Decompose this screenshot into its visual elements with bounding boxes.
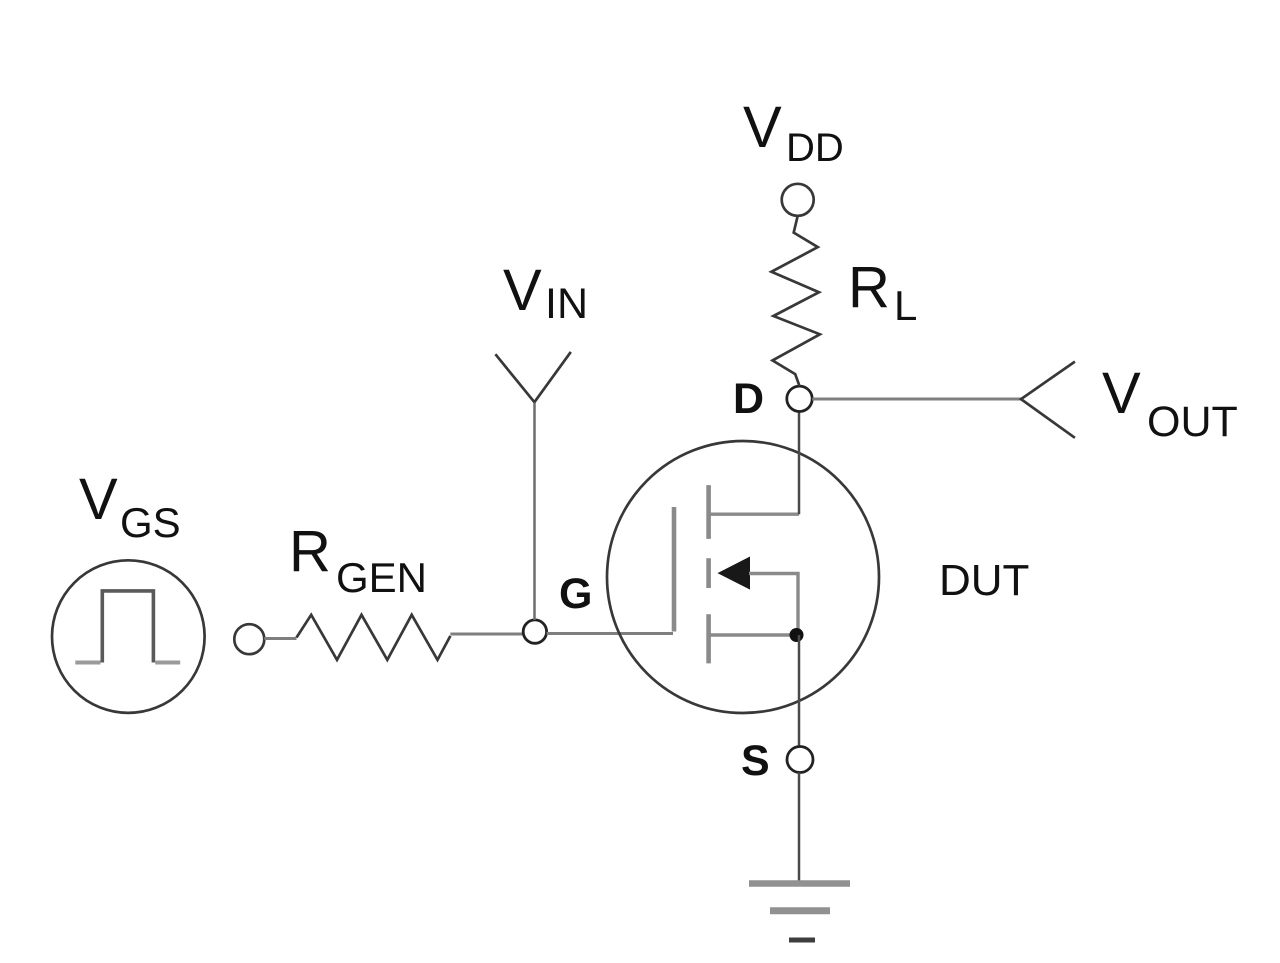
source connection: [709, 633, 798, 636]
svg-text:DUT: DUT: [939, 556, 1029, 605]
terminal VDD: [782, 184, 814, 216]
resistor RGEN: [297, 615, 451, 660]
drain connection: [709, 513, 799, 516]
svg-text:V: V: [1102, 361, 1141, 426]
svg-text:IN: IN: [545, 280, 588, 328]
svg-text:G: G: [559, 570, 592, 618]
svg-text:V: V: [743, 95, 782, 160]
svg-text:R: R: [289, 519, 331, 584]
body diode arrow: [718, 557, 751, 590]
svg-text:OUT: OUT: [1147, 398, 1238, 446]
svg-text:GEN: GEN: [336, 554, 427, 601]
probe VIN: [495, 352, 570, 620]
probe VOUT: [1021, 362, 1075, 438]
gate electrode bar: [672, 507, 677, 632]
transistor DUT body circle: [607, 441, 879, 713]
wire: drain to node D: [798, 411, 801, 514]
svg-text:R: R: [848, 255, 890, 320]
svg-text:S: S: [741, 737, 770, 785]
wire: RGEN to node G: [450, 633, 523, 636]
junction dot: body to source: [790, 628, 804, 642]
wire: source to node S: [798, 635, 801, 747]
svg-text:V: V: [503, 258, 542, 323]
node G: [523, 620, 546, 643]
wire: generator terminal to RGEN: [264, 637, 296, 640]
resistor RL: [771, 216, 820, 386]
svg-text:V: V: [79, 467, 118, 532]
svg-text:DD: DD: [786, 126, 844, 170]
wire: node S to ground: [798, 773, 801, 887]
terminal: generator output: [234, 624, 264, 654]
ground: [749, 884, 850, 941]
wire: node D to VOUT probe: [812, 398, 1021, 401]
wire: node G to gate: [547, 632, 673, 635]
svg-text:D: D: [733, 375, 764, 423]
node D: [787, 386, 812, 411]
gate channel segments: [706, 485, 711, 663]
body-source connection: [749, 574, 798, 634]
svg-text:L: L: [894, 282, 917, 329]
node S: [787, 747, 813, 773]
pulse generator VGS: [52, 560, 205, 713]
svg-text:GS: GS: [120, 499, 181, 546]
